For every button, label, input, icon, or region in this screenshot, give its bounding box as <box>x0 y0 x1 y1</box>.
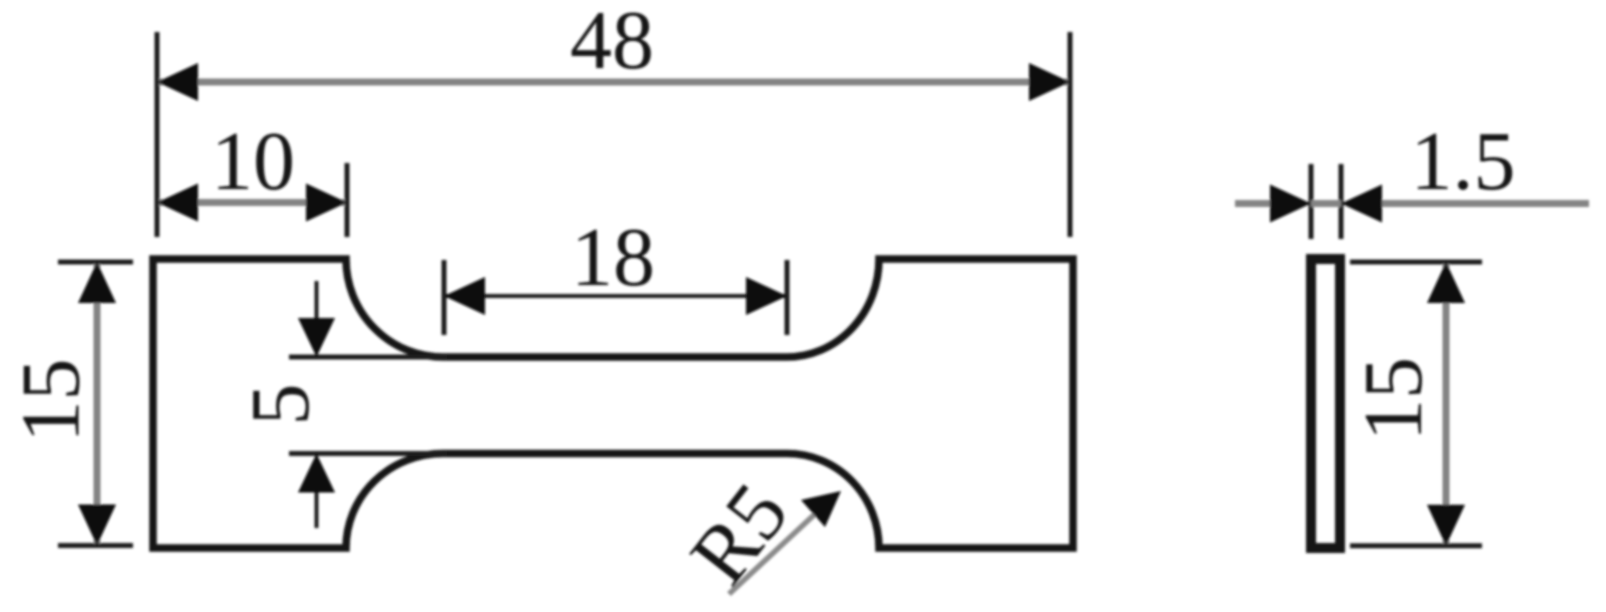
arrowhead 48 right <box>1029 63 1070 101</box>
dimension line 5 upper <box>315 281 319 321</box>
svg-text:10: 10 <box>211 115 295 208</box>
extension line right (18 dim) <box>785 260 790 335</box>
dimension line 18 <box>446 294 785 298</box>
svg-text:5: 5 <box>234 384 327 426</box>
arrowhead 48 left <box>157 63 198 101</box>
arrowhead 1.5 left <box>1270 185 1311 223</box>
arrowhead 18 right <box>746 277 787 315</box>
side view plate outline <box>1311 259 1340 548</box>
extension line left (1.5 dim) <box>1309 164 1314 239</box>
dimension line 15 right <box>1443 264 1450 544</box>
dimension line 1.5 left tail <box>1235 200 1275 207</box>
arrowhead 10 right <box>306 184 347 222</box>
extension line right (10 dim) <box>345 163 350 237</box>
tick bottom (15 left dim) <box>58 543 133 548</box>
arrowhead 15 right bottom <box>1427 505 1465 546</box>
extension line top (5 dim) <box>289 355 447 360</box>
arrowhead 5 lower <box>298 454 335 493</box>
arrowhead 1.5 right <box>1341 185 1382 223</box>
arrowhead 15 left top <box>78 262 116 303</box>
dimension line 1.5 connector <box>1311 200 1341 207</box>
svg-text:18: 18 <box>571 211 655 304</box>
arrowhead R5 leader <box>801 491 841 527</box>
extension line right (1.5 dim) <box>1339 164 1344 239</box>
dimension line 5 lower <box>315 490 319 528</box>
tick top (15 left dim) <box>58 260 133 265</box>
extension line left (48/10 dims) <box>155 32 160 237</box>
tick top (15 right dim) <box>1350 260 1482 265</box>
svg-text:15: 15 <box>1347 357 1440 441</box>
extension line left (18 dim) <box>442 260 447 335</box>
dimension line 1.5 right tail <box>1378 200 1589 207</box>
arrowhead 15 left bottom <box>78 505 116 546</box>
svg-text:R5: R5 <box>673 467 807 602</box>
arrowhead 15 right top <box>1427 262 1465 303</box>
leader line R5 <box>729 514 815 594</box>
svg-text:15: 15 <box>5 359 98 443</box>
svg-text:48: 48 <box>570 0 654 87</box>
dimension line 48 <box>159 79 1068 86</box>
arrowhead 10 left <box>157 184 198 222</box>
extension line right (48 dim) <box>1068 32 1073 237</box>
arrowhead 18 left <box>444 277 485 315</box>
specimen outline (front view, dog-bone) <box>153 259 1073 548</box>
extension line bottom (5 dim) <box>289 451 447 456</box>
dimension line 15 left <box>94 264 101 544</box>
arrowhead 5 upper <box>298 318 335 357</box>
svg-text:1.5: 1.5 <box>1411 115 1516 208</box>
dimension line 10 <box>159 199 345 206</box>
tick bottom (15 right dim) <box>1350 543 1482 548</box>
